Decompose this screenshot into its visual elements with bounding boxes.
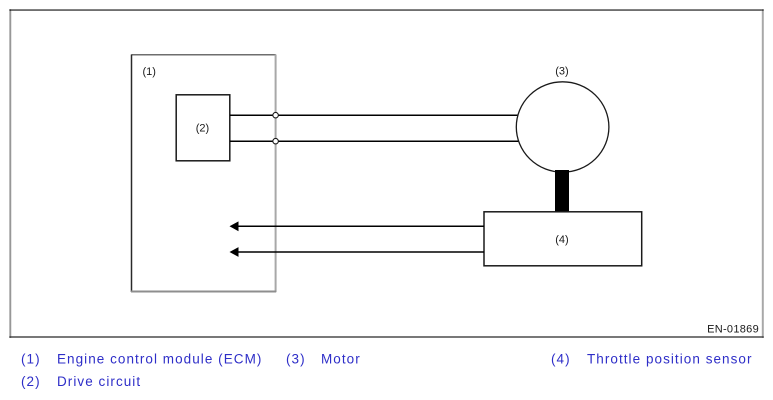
svg-text:Engine control module (ECM): Engine control module (ECM) [57,351,262,366]
svg-text:Motor: Motor [321,351,361,366]
svg-text:EN-01869: EN-01869 [707,324,759,336]
node: lower wire through ECM boundary [273,138,279,144]
wire: sensor output lower with arrowhead [230,247,485,257]
svg-text:(1): (1) [21,351,41,366]
box 2: drive circuit [176,95,230,161]
svg-text:(4): (4) [551,351,571,366]
svg-text:(1): (1) [142,66,155,78]
wire: sensor output upper with arrowhead [230,221,485,231]
svg-text:Throttle position sensor: Throttle position sensor [587,351,753,366]
svg-text:(2): (2) [196,123,209,135]
svg-text:(3): (3) [555,65,568,77]
box 1: engine control module (ECM) [131,55,276,293]
shaft: motor to throttle position sensor [555,170,569,213]
box 4: throttle position sensor [484,212,642,266]
wire: drive circuit to motor (lower) [230,140,519,142]
svg-text:(3): (3) [286,351,306,366]
motor circle (3) [516,82,609,172]
svg-text:(2): (2) [21,374,41,389]
svg-text:Drive circuit: Drive circuit [57,374,141,389]
node: upper wire through ECM boundary [273,112,279,118]
wire: drive circuit to motor (upper) [230,114,519,116]
svg-text:(4): (4) [555,234,568,246]
